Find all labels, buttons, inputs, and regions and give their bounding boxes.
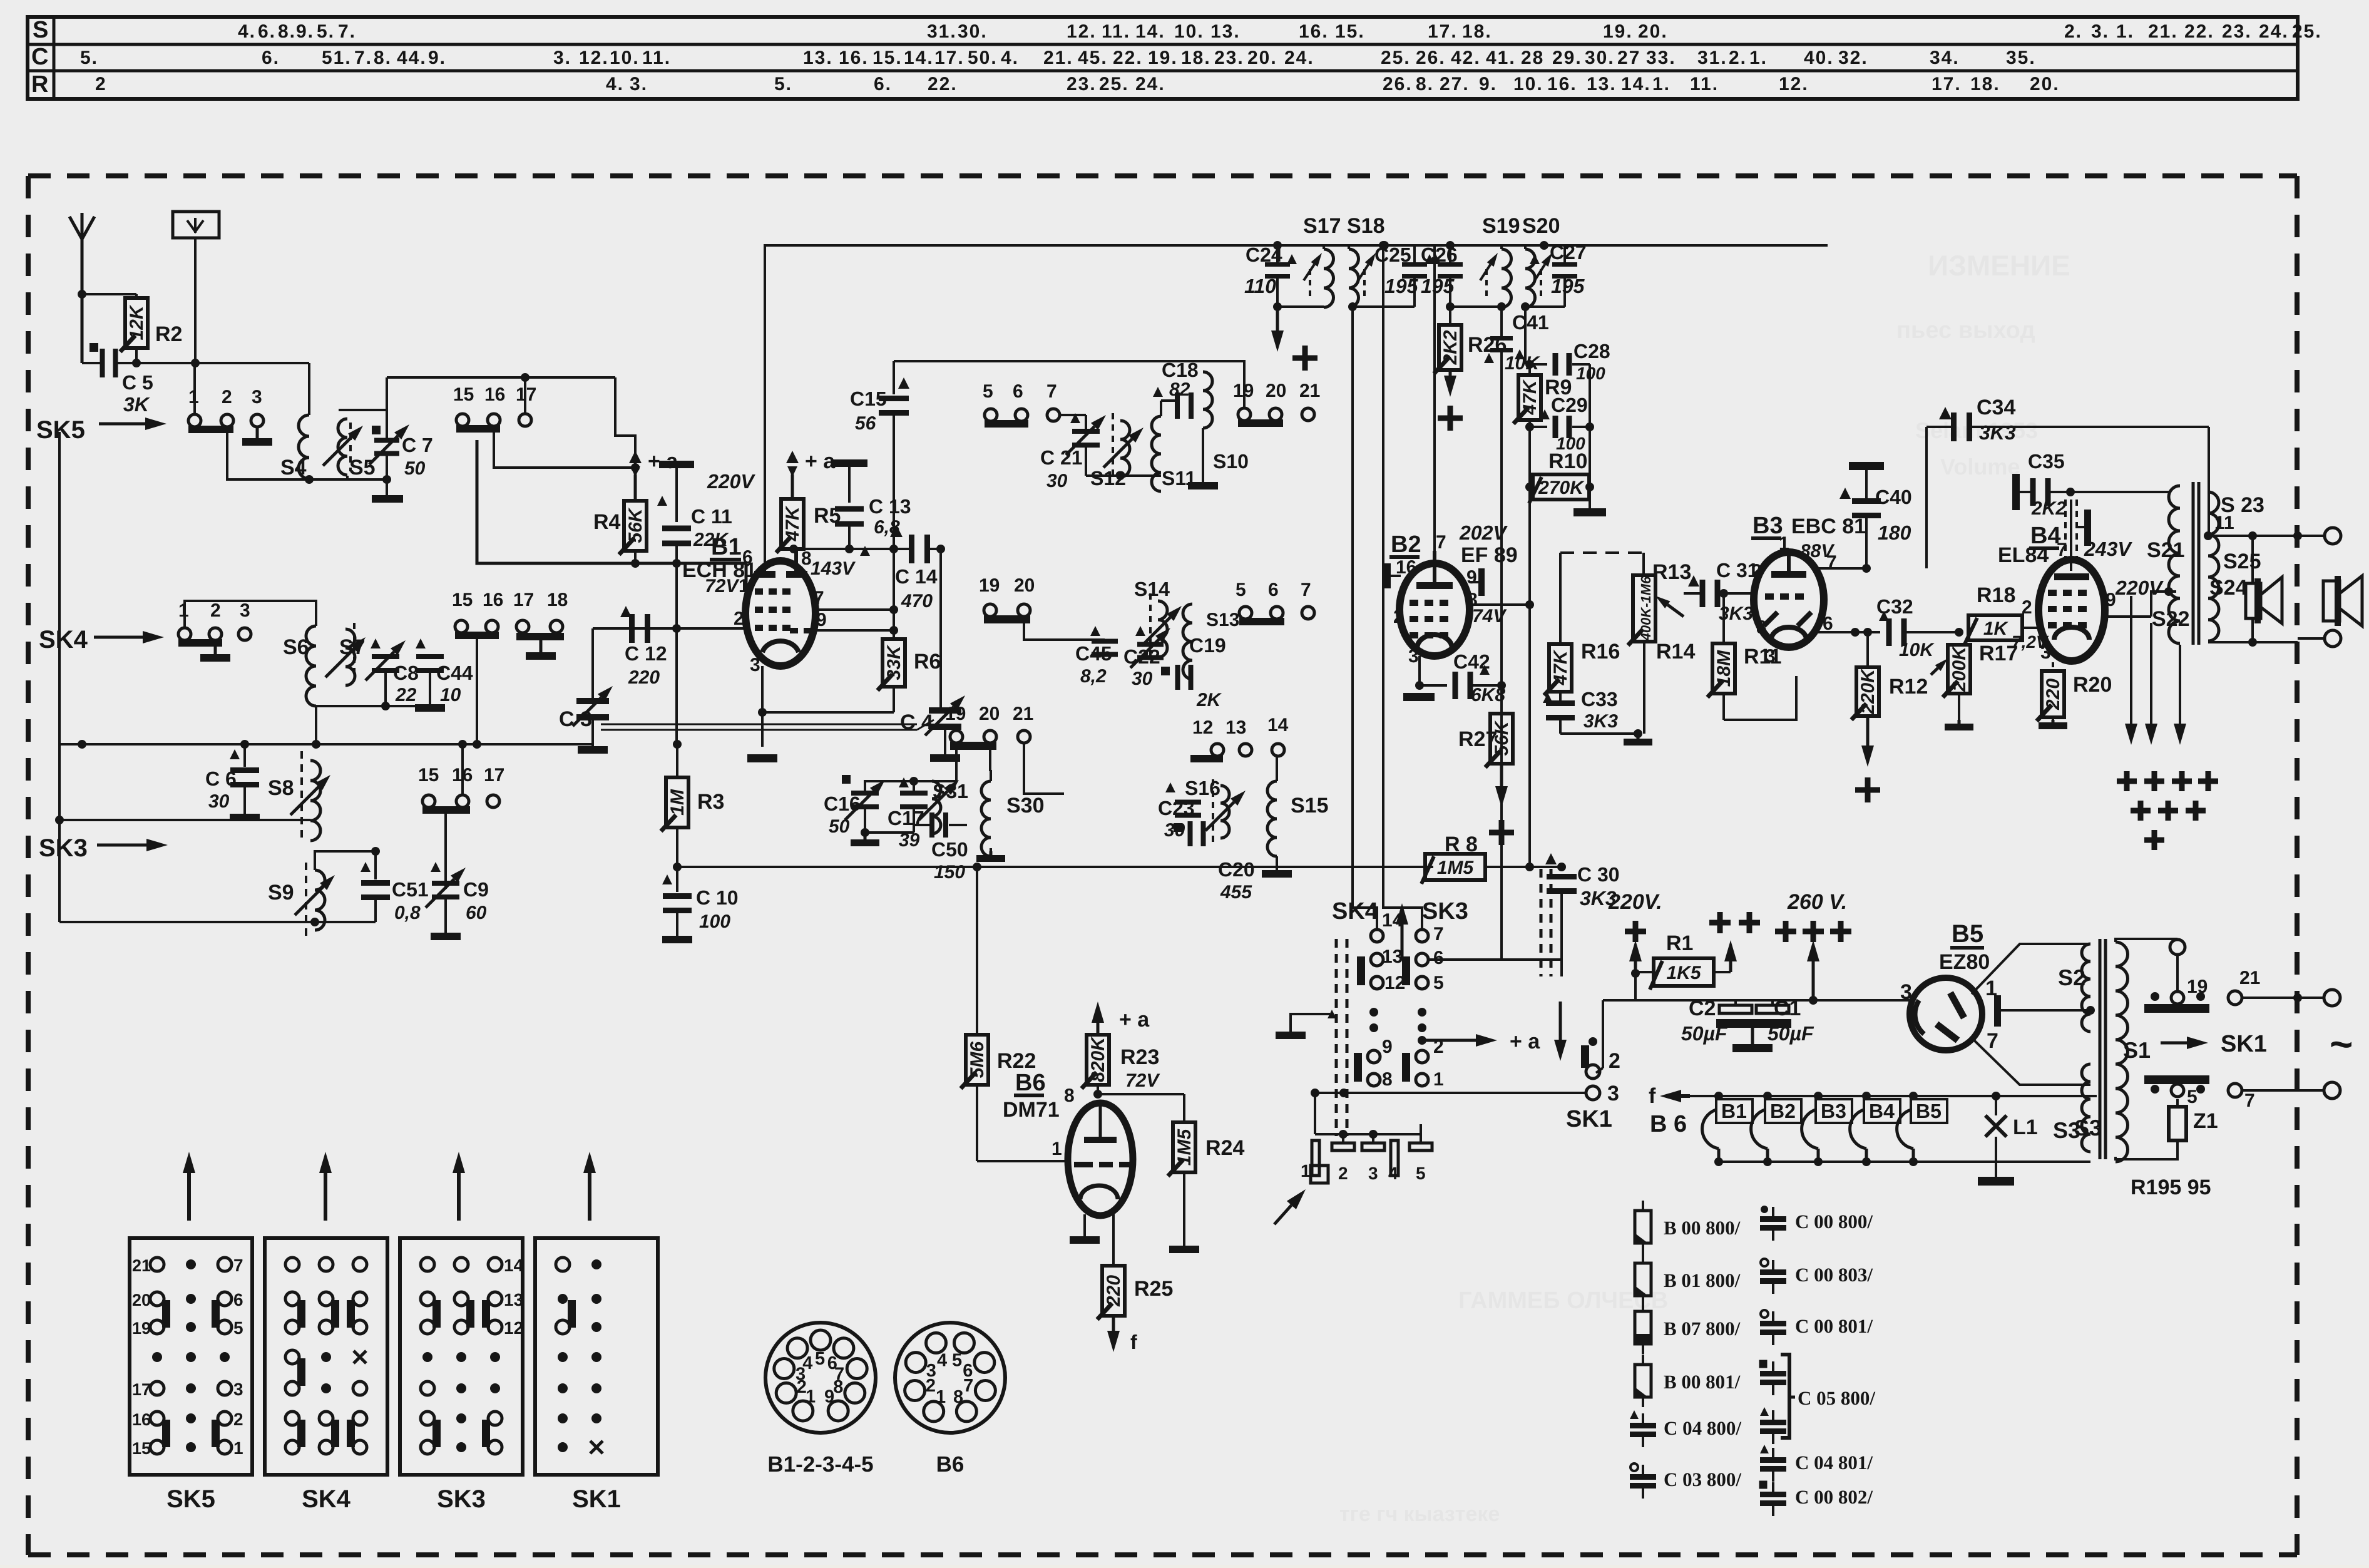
svg-text:3: 3	[233, 1380, 243, 1399]
svg-text:26.: 26.	[1416, 48, 1446, 68]
mains sec S3 winding	[2053, 1064, 2090, 1152]
svg-text:R12: R12	[1889, 675, 1928, 699]
S1 bottom wire	[2116, 1154, 2177, 1159]
S3 label near L1	[2074, 1115, 2102, 1140]
svg-text:B 00 800/: B 00 800/	[1664, 1217, 1741, 1239]
capacitor C41 10K	[1484, 307, 1549, 374]
svg-text:4: 4	[937, 1350, 947, 1370]
svg-text:14.: 14.	[904, 48, 934, 68]
svg-text:1: 1	[1051, 1139, 1062, 1159]
electrolytic C1 50uF	[1756, 997, 1814, 1045]
wire S13 contacts to B2 grid	[1314, 612, 1401, 613]
R195 95 text	[2131, 1176, 2211, 1199]
SK1 wire + contact 3	[1311, 1082, 1619, 1105]
chassis tap S2	[1994, 995, 2095, 1027]
svg-text:19: 19	[979, 575, 1000, 596]
svg-text:143V: 143V	[811, 558, 856, 579]
output transformer secondary S23	[2208, 492, 2264, 641]
svg-text:R23: R23	[1120, 1045, 1159, 1069]
S row numbers 2 3 1	[2064, 21, 2134, 42]
capacitor C33 3K3	[1543, 688, 1638, 734]
svg-text:2: 2	[210, 600, 221, 621]
S row numbers left group	[238, 21, 356, 42]
svg-text:C 04 800/: C 04 800/	[1664, 1417, 1741, 1439]
svg-text:12.: 12.	[1779, 74, 1809, 95]
capacitor C15 56	[850, 361, 909, 553]
contacts 15 16 17 top row	[453, 384, 536, 433]
svg-text:R: R	[31, 71, 48, 98]
svg-text:0,8: 0,8	[394, 903, 421, 923]
svg-text:C24: C24	[1246, 243, 1282, 266]
primary top terminal	[2116, 939, 2185, 992]
wire y577	[894, 360, 1246, 362]
svg-text:C44: C44	[436, 662, 473, 684]
svg-text:2: 2	[1433, 1037, 1444, 1057]
heater B5	[1897, 1092, 1947, 1166]
cathode bottom wire	[758, 708, 894, 717]
svg-text:18M: 18M	[1714, 650, 1734, 687]
f arrow heater	[1649, 1084, 2097, 1108]
svg-text:C 04 801/: C 04 801/	[1795, 1452, 1873, 1473]
svg-text:3: 3	[1368, 1164, 1378, 1183]
node line SK4 row	[59, 428, 593, 749]
svg-text:C27: C27	[1550, 241, 1587, 264]
svg-text:220: 220	[2043, 679, 2064, 710]
legend B 01 800	[1635, 1253, 1741, 1306]
svg-text:17.: 17.	[1428, 21, 1458, 42]
B4 tube EL84	[2012, 560, 2116, 663]
long vertical S18 top to SK3	[1379, 241, 1422, 930]
svg-text:6.: 6.	[262, 48, 280, 68]
svg-text:B2: B2	[1770, 1100, 1796, 1122]
coil S11	[1152, 401, 1196, 491]
svg-text:B 00 801/: B 00 801/	[1664, 1371, 1741, 1393]
resistor R10 270K	[1525, 427, 1594, 503]
svg-text:17: 17	[484, 765, 504, 786]
svg-text:C51: C51	[392, 878, 429, 901]
svg-text:R11: R11	[1744, 645, 1782, 669]
connector block SK5	[130, 1238, 252, 1513]
capacitor C11 22K	[657, 461, 732, 633]
B4 grid wire	[2040, 627, 2048, 628]
B2 tube EF89	[1393, 532, 1507, 667]
capacitor C26 195 (inline left edge)	[1421, 243, 1463, 311]
svg-text:3: 3	[2040, 642, 2051, 663]
svg-text:2.: 2.	[2064, 21, 2082, 42]
long vertical S18 bottom to SK4	[1353, 307, 1377, 930]
svg-text:B 6: B 6	[1650, 1111, 1687, 1137]
capacitor C14 470	[890, 525, 945, 612]
svg-text:7: 7	[1433, 924, 1444, 945]
220V annotation B1	[707, 470, 755, 493]
svg-text:8: 8	[1756, 617, 1767, 638]
contacts 5 6 (osc top)	[983, 381, 1028, 428]
svg-text:C32: C32	[1876, 595, 1913, 618]
mains sec S2 winding	[2082, 944, 2090, 1032]
B2 pin7 to top rail	[1433, 245, 1436, 551]
svg-text:8: 8	[833, 1377, 843, 1397]
svg-text:20.: 20.	[2030, 74, 2060, 95]
svg-text:C16: C16	[824, 792, 861, 815]
wire R11 top to C31 line	[1719, 589, 1728, 643]
svg-text:C 00 803/: C 00 803/	[1795, 1264, 1873, 1286]
capacitor C5 3K	[82, 343, 153, 416]
svg-text:S3: S3	[2074, 1115, 2102, 1140]
svg-text:47K: 47K	[782, 505, 803, 541]
svg-text:13: 13	[1225, 717, 1246, 738]
contact 6	[1416, 948, 1444, 968]
legend B 00 801	[1635, 1355, 1741, 1407]
lower bar + contact 5	[2144, 1075, 2209, 1107]
capacitor C18 82	[1153, 359, 1208, 419]
svg-text:L1: L1	[2013, 1115, 2038, 1139]
svg-text:6.: 6.	[874, 74, 892, 95]
+a arrow from wafer	[1418, 1030, 1540, 1053]
svg-text:5.: 5.	[317, 21, 335, 42]
IF top rail nodes	[1273, 241, 1548, 250]
legend C 04 801	[1760, 1445, 1873, 1482]
wire contact17 up to upper run	[521, 373, 530, 414]
connector block SK1	[535, 1238, 658, 1513]
wire contacts SK4 to S6	[185, 601, 316, 628]
svg-text:31.: 31.	[927, 21, 957, 42]
svg-text:3: 3	[240, 600, 250, 621]
svg-text:9: 9	[1382, 1037, 1393, 1057]
left rail SK5 to bottom	[55, 432, 64, 922]
svg-text:12.: 12.	[579, 48, 609, 68]
svg-text:11.: 11.	[642, 48, 671, 68]
svg-text:220V: 220V	[2115, 576, 2164, 599]
svg-text:S18: S18	[1347, 214, 1385, 238]
pot R13/R14 400K-1M6	[1628, 560, 1695, 664]
svg-text:270K: 270K	[1538, 478, 1585, 498]
resistor R12 220K	[1851, 628, 1928, 802]
capacitor C40 180	[1839, 462, 1912, 568]
svg-text:20: 20	[1014, 575, 1035, 596]
svg-text:15: 15	[132, 1439, 151, 1458]
svg-text:13.: 13.	[1587, 74, 1617, 95]
svg-text:13: 13	[1382, 946, 1403, 967]
wire right terminal bottom	[2298, 630, 2341, 647]
svg-text:21.: 21.	[2148, 21, 2178, 42]
svg-text:B1: B1	[711, 534, 742, 560]
svg-text:220: 220	[628, 667, 660, 688]
svg-text:19.: 19.	[1148, 48, 1178, 68]
speaker S25/S24 labels	[2209, 550, 2261, 600]
svg-text:C 4: C 4	[900, 710, 933, 734]
svg-text:2: 2	[2022, 597, 2032, 618]
svg-text:22.: 22.	[1113, 48, 1143, 68]
svg-text:R6: R6	[914, 650, 941, 674]
svg-text:3: 3	[1408, 646, 1419, 667]
svg-text:R27: R27	[1458, 727, 1497, 751]
AGC dashed link	[1560, 553, 1644, 644]
svg-text:S30: S30	[1006, 794, 1045, 817]
capacitor C6 30	[205, 740, 260, 821]
secondary tap wire to terminals	[2204, 531, 2324, 540]
right terminal top	[2325, 528, 2341, 544]
S row numbers 21-25	[2148, 21, 2322, 42]
svg-text:C2: C2	[1689, 997, 1716, 1020]
svg-text:R13: R13	[1652, 560, 1691, 584]
svg-text:DM71: DM71	[1003, 1098, 1060, 1122]
svg-text:тге гч кыазтеке: тге гч кыазтеке	[1339, 1502, 1500, 1526]
svg-text:20: 20	[1266, 381, 1286, 401]
svg-text:23.: 23.	[1214, 48, 1244, 68]
S17 box bottom	[1277, 305, 1324, 308]
svg-text:9.: 9.	[1479, 74, 1497, 95]
svg-text:18.: 18.	[1462, 21, 1492, 42]
contacts 15 16 17 18 (SK4 row)	[452, 590, 568, 749]
svg-text:R18: R18	[1977, 583, 2015, 607]
svg-text:20: 20	[979, 704, 1000, 724]
IF coil S17	[1303, 214, 1341, 307]
svg-text:C34: C34	[1977, 396, 2015, 419]
IF coil S20	[1522, 214, 1560, 307]
B1 pin3 ground	[747, 666, 777, 762]
variable capacitor C4	[900, 549, 965, 762]
contact 13	[1371, 946, 1403, 967]
svg-text:3: 3	[1900, 980, 1912, 1004]
svg-text:2K2: 2K2	[1440, 330, 1461, 365]
svg-text:C 00 800/: C 00 800/	[1795, 1211, 1873, 1232]
svg-text:51.: 51.	[322, 48, 352, 68]
electrolytic C2 50uF	[1681, 997, 1752, 1045]
svg-text:260 V.: 260 V.	[1787, 890, 1847, 914]
resistor R22 5M6	[961, 1035, 1036, 1161]
coil S13 osc	[1183, 604, 1239, 679]
svg-text:30: 30	[208, 791, 230, 812]
coil S4	[280, 415, 314, 484]
svg-text:22: 22	[395, 685, 417, 705]
resistor R2 12K	[120, 294, 182, 352]
heater B1	[1702, 1092, 1752, 1166]
wire C8/C44 row bottom	[312, 672, 430, 749]
capacitor C12 220	[620, 606, 667, 688]
B5 diagonal wires to S2	[1970, 944, 2090, 1085]
svg-text:SK1: SK1	[1566, 1106, 1612, 1132]
svg-text:5.: 5.	[80, 48, 98, 68]
svg-text:50: 50	[829, 816, 850, 837]
trimmer C21 30	[1040, 413, 1106, 491]
svg-text:C 03 800/: C 03 800/	[1664, 1468, 1741, 1490]
osc top block bottom wire	[1086, 471, 1161, 480]
ground left of wafer	[1276, 1010, 1336, 1039]
secondary bottom wire	[2208, 638, 2298, 647]
heater B3	[1802, 1092, 1852, 1166]
plus marks under arrows	[2117, 771, 2218, 850]
svg-text:SK4: SK4	[39, 626, 88, 653]
SK5 label and arrow	[36, 416, 166, 444]
svg-text:C 14: C 14	[895, 565, 938, 588]
top feedback wire y392	[765, 245, 1828, 575]
svg-text:S6: S6	[283, 635, 309, 659]
svg-text:S19: S19	[1482, 214, 1520, 238]
coil S8 variable dashed	[268, 751, 330, 842]
svg-text:S7: S7	[339, 635, 366, 659]
resistor R16 47K	[1544, 640, 1620, 702]
contact 2	[1416, 1037, 1444, 1063]
svg-text:5: 5	[1236, 580, 1246, 600]
right vertical C28-C29	[1589, 364, 1591, 487]
wafer dashed links	[1336, 939, 1347, 1136]
svg-text:7.: 7.	[338, 21, 356, 42]
resistor R18 1K	[1959, 583, 2040, 644]
svg-text:C 11: C 11	[691, 505, 732, 528]
contact 12	[1357, 956, 1405, 993]
svg-text:EL84: EL84	[1998, 543, 2049, 567]
tuning gang link line	[601, 720, 934, 730]
svg-text:12.: 12.	[1067, 21, 1097, 42]
coil S15	[1262, 756, 1329, 878]
capacitor C44 10	[415, 638, 473, 712]
svg-text:9.: 9.	[428, 48, 446, 68]
SK1 arrow right	[2161, 1031, 2267, 1057]
svg-text:47K: 47K	[1550, 649, 1571, 685]
PSU main wire	[1603, 972, 1910, 1068]
svg-text:C33: C33	[1581, 688, 1618, 710]
wire R2 bottom to C5 node	[132, 348, 141, 367]
svg-text:R16: R16	[1581, 640, 1620, 664]
legend C 05 800	[1759, 1355, 1876, 1444]
svg-text:C8: C8	[393, 662, 419, 684]
B2 pin9 grid bar	[1470, 568, 1485, 596]
svg-text:4.: 4.	[1001, 48, 1019, 68]
R10 ground	[1573, 487, 1606, 516]
+a feed (R4)	[629, 449, 678, 477]
S15 S16 C20 C23 block	[0, 0, 1, 1]
transformer core lines	[2193, 482, 2199, 645]
svg-text:30.: 30.	[958, 21, 988, 42]
svg-text:17: 17	[132, 1380, 151, 1399]
svg-text:14: 14	[504, 1256, 524, 1275]
wafer bottom stubs	[1374, 1034, 1422, 1093]
svg-text:13: 13	[504, 1290, 523, 1309]
capacitor C51 0,8	[361, 851, 429, 923]
svg-text:8: 8	[953, 1387, 963, 1407]
wire C15 node to R6	[893, 549, 895, 639]
svg-text:9: 9	[824, 1386, 834, 1407]
svg-text:C41: C41	[1512, 311, 1549, 334]
svg-text:15.: 15.	[1335, 21, 1365, 42]
svg-text:B 07 800/: B 07 800/	[1664, 1318, 1741, 1340]
svg-text:C45: C45	[1075, 642, 1112, 665]
resistor R8 1M5	[1421, 833, 1534, 884]
grid1 wire B1	[477, 440, 746, 592]
dashed pin7 B4	[2065, 500, 2077, 571]
resistor R1 1K5	[1650, 931, 1731, 990]
svg-text:~: ~	[2330, 1022, 2353, 1067]
svg-text:13.: 13.	[803, 48, 833, 68]
svg-text:2K2: 2K2	[2031, 498, 2066, 519]
svg-text:25.: 25.	[2292, 21, 2322, 42]
resistor R4 56K	[593, 474, 647, 563]
resistor R11 18M	[1707, 643, 1796, 720]
svg-text:5: 5	[233, 1318, 243, 1338]
B3 label EBC81	[1751, 513, 1866, 561]
dashed schematic border bottom	[28, 1552, 2297, 1557]
svg-text:B 01 800/: B 01 800/	[1664, 1269, 1741, 1291]
svg-text:R4: R4	[593, 510, 621, 534]
svg-text:3.: 3.	[2091, 21, 2109, 42]
vertical R10 left to B2 pin8	[1528, 487, 1531, 867]
svg-text:S16: S16	[1185, 777, 1220, 799]
contacts 19 20 21 (S10)	[1233, 361, 1320, 427]
S row numbers 12 11 14 10 13	[1067, 21, 1241, 42]
svg-text:8.: 8.	[1416, 74, 1434, 95]
wire 220V tap	[2151, 492, 2180, 596]
capacitor C19 2K	[1161, 634, 1226, 710]
svg-text:2.: 2.	[1729, 48, 1747, 68]
svg-text:B4: B4	[1869, 1100, 1895, 1122]
svg-text:14: 14	[1267, 715, 1289, 735]
resistor R20 220	[2037, 662, 2112, 729]
B5 label EZ80	[1939, 920, 1990, 974]
svg-text:C28: C28	[1573, 340, 1610, 362]
S10 coil + contacts	[1188, 372, 1249, 489]
svg-text:17.: 17.	[934, 48, 964, 68]
svg-text:33K: 33K	[884, 644, 904, 680]
S2 label	[2058, 965, 2085, 990]
svg-text:7: 7	[1826, 552, 1837, 573]
paper bleed-through	[1339, 249, 2070, 1526]
svg-text:7: 7	[1046, 381, 1057, 402]
S22 tap vertical	[2131, 592, 2151, 596]
svg-text:820K: 820K	[1088, 1036, 1108, 1082]
svg-text:C 12: C 12	[625, 642, 667, 665]
svg-text:R1: R1	[1666, 931, 1693, 955]
svg-text:SK3: SK3	[39, 834, 88, 862]
svg-text:6: 6	[233, 1290, 243, 1309]
svg-text:+ a: + a	[805, 449, 836, 473]
svg-text:SK5: SK5	[166, 1485, 215, 1513]
svg-text:3: 3	[1765, 646, 1776, 667]
svg-text:S8: S8	[268, 776, 294, 800]
220V label PSU	[1608, 890, 1662, 942]
legend C 00 803	[1760, 1259, 1873, 1294]
pin7 wire	[814, 605, 898, 614]
contact2 hook	[1596, 1068, 1603, 1073]
svg-text:C29: C29	[1551, 394, 1588, 416]
svg-text:Z1: Z1	[2193, 1109, 2218, 1133]
svg-text:4.: 4.	[606, 74, 624, 95]
svg-text:11.: 11.	[1690, 74, 1719, 95]
osc cluster top wire	[865, 743, 956, 791]
svg-text:5: 5	[1416, 1164, 1426, 1183]
svg-text:22.: 22.	[928, 74, 958, 95]
table frame S/C/R rows	[28, 17, 2298, 99]
svg-text:17: 17	[513, 590, 534, 610]
wire contact16 up to node line	[458, 740, 467, 795]
svg-text:24.: 24.	[1135, 74, 1165, 95]
svg-text:100: 100	[699, 911, 730, 932]
wire 15/16 bar down to R4 top	[494, 433, 640, 472]
svg-text:30: 30	[1164, 820, 1185, 841]
svg-text:19.: 19.	[1603, 21, 1633, 42]
up arrow SK3	[453, 1152, 465, 1221]
svg-text:28: 28	[1521, 48, 1544, 68]
svg-text:2: 2	[222, 387, 232, 407]
contacts 12 13 14	[1190, 715, 1289, 762]
svg-text:31.: 31.	[1697, 48, 1727, 68]
svg-text:26.: 26.	[1383, 74, 1413, 95]
wire C34 right leg down to S23	[2208, 427, 2210, 536]
svg-text:C 7: C 7	[402, 434, 433, 456]
svg-text:18.: 18.	[1970, 74, 2000, 95]
connector block SK4	[265, 1238, 387, 1513]
S17 + arrow down	[1271, 307, 1318, 371]
svg-text:20: 20	[132, 1291, 151, 1309]
